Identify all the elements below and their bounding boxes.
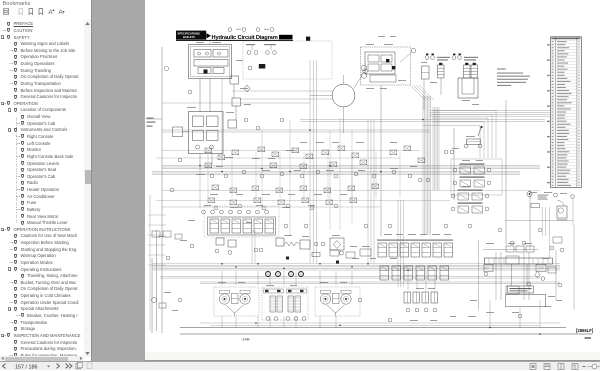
svg-text:Hydraulic Circuit Diagram: Hydraulic Circuit Diagram xyxy=(212,35,278,41)
svg-text:NOTES: NOTES xyxy=(497,67,506,71)
svg-text:A: A xyxy=(59,9,64,15)
svg-text:A: A xyxy=(49,9,54,15)
svg-text:BAB-ETC: BAB-ETC xyxy=(183,35,195,39)
svg-text:-148-: -148- xyxy=(241,337,251,342)
svg-text:[2866LF]: [2866LF] xyxy=(576,328,594,333)
svg-text:SPECIFICATIONS: SPECIFICATIONS xyxy=(178,31,201,35)
